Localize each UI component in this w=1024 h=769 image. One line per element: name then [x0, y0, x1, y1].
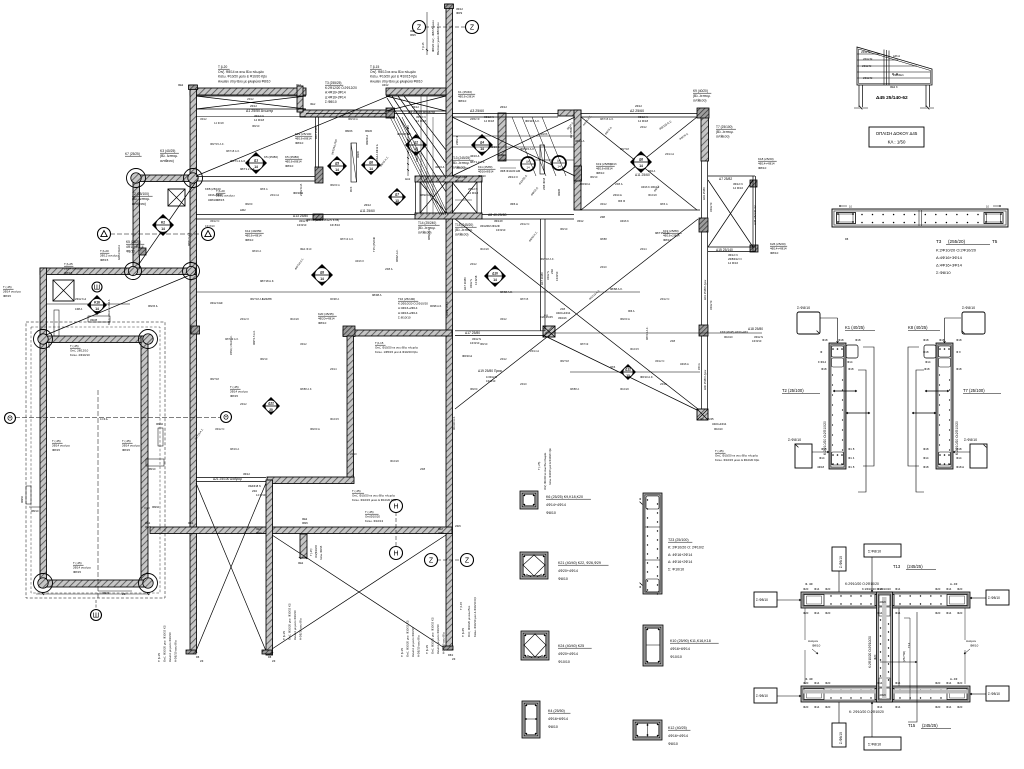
- svg-text:Σ:Φ8/10: Σ:Φ8/10: [988, 596, 1000, 600]
- svg-text:Φ8/10: Φ8/10: [758, 166, 767, 170]
- svg-text:Οπζ. Φ10/20 μεσ. Φ10/15 Κβ: Οπζ. Φ10/20 μεσ. Φ10/15 Κβ: [406, 620, 410, 657]
- svg-text:Θ: Θ: [223, 414, 229, 421]
- svg-text:Κ11 (25/80): Κ11 (25/80): [478, 165, 492, 169]
- svg-text:2Φ14 Δ: 2Φ14 Δ: [270, 193, 279, 197]
- svg-text:Φ8/2Φ Δ: Φ8/2Φ Δ: [365, 135, 369, 145]
- svg-text:(Βλ. λεπτομ.: (Βλ. λεπτομ.: [452, 161, 470, 165]
- svg-text:2Φ14 ανω/μω: 2Φ14 ανω/μω: [3, 290, 22, 294]
- svg-text:98/19 Α: 98/19 Α: [230, 447, 239, 451]
- svg-text:Τ15: Τ15: [908, 723, 916, 728]
- svg-text:(255/20): (255/20): [948, 239, 966, 244]
- svg-text:Φ8/10: Φ8/10: [478, 174, 486, 178]
- svg-text:Οπζ. Φ10/20 κε ανω Βλο πλωρλο: Οπζ. Φ10/20 κε ανω Βλο πλωρλο: [352, 494, 396, 498]
- svg-text:2Φ14 Ο: 2Φ14 Ο: [508, 175, 519, 179]
- svg-text:Τ (-25): Τ (-25): [365, 510, 374, 514]
- svg-text:ΦΒ/10: ΦΒ/10: [148, 467, 156, 471]
- svg-text:2Φ4 Α: 2Φ4 Α: [698, 363, 701, 370]
- svg-text:2Φ12 Ν: 2Φ12 Ν: [520, 222, 529, 226]
- svg-text:Φ- 4Φ: Φ- 4Φ: [805, 677, 813, 681]
- svg-text:2Φ14: 2Φ14: [330, 367, 337, 371]
- svg-text:Δ11 25/60: Δ11 25/60: [635, 173, 650, 177]
- svg-text:Φ- 4Φ: Φ- 4Φ: [805, 582, 813, 586]
- svg-text:Δ13 25/80: Δ13 25/80: [293, 214, 308, 218]
- svg-text:Τ β-15: Τ β-15: [282, 631, 286, 640]
- svg-text:2Φ52 Φ: 2Φ52 Φ: [455, 136, 459, 145]
- svg-text:Φ8/10: Φ8/10: [156, 422, 164, 426]
- svg-text:Οπζ. Φ10/20 κε ανω Βλο πλωρλο: Οπζ. Φ10/20 κε ανω Βλο πλωρλο: [715, 454, 759, 458]
- svg-text:2Φ12 ανω/μω: 2Φ12 ανω/μω: [100, 254, 119, 258]
- svg-text:Κ1 (40/25): Κ1 (40/25): [845, 325, 865, 330]
- svg-text:4Φ16: 4Φ16: [610, 162, 617, 166]
- svg-text:Φ14: Φ14: [923, 456, 929, 460]
- svg-text:ΔΦ2: ΔΦ2: [240, 208, 246, 212]
- svg-text:Δ45 25/140-62: Δ45 25/140-62: [753, 205, 757, 225]
- svg-text:Τ (-25): Τ (-25): [3, 285, 12, 289]
- svg-text:Φ14: Φ14: [946, 681, 952, 685]
- svg-text:Τ (-25): Τ (-25): [537, 462, 541, 470]
- svg-text:3Φ12 Ν: 3Φ12 Ν: [215, 427, 224, 431]
- svg-text:Φ8/9: Φ8/9: [145, 525, 151, 529]
- svg-text:Φ1 8: Φ1 8: [848, 447, 855, 451]
- svg-text:14 Φ/18: 14 Φ/18: [484, 119, 494, 123]
- svg-text:Δ2 25/60: Δ2 25/60: [630, 109, 644, 113]
- svg-text:Φ8/20: Φ8/20: [470, 387, 478, 391]
- svg-text:Φ8/15: Φ8/15: [3, 294, 11, 298]
- svg-text:Κ5 (25/25): Κ5 (25/25): [126, 240, 141, 244]
- svg-text:Δ1 25/50 Ανωστρ: Δ1 25/50 Ανωστρ: [246, 109, 273, 113]
- svg-text:Τ16 (25/190): Τ16 (25/190): [398, 297, 415, 301]
- svg-text:Δ19 25/80 Πρεκι: Δ19 25/80 Πρεκι: [478, 369, 502, 373]
- svg-text:ΦΕ4 Φ10: ΦΕ4 Φ10: [300, 247, 312, 251]
- svg-text:Φ8/10: Φ8/10: [126, 250, 135, 254]
- svg-text:Φ8/10: Φ8/10: [558, 577, 568, 581]
- svg-text:Δ21 25/100 Διαδρομ: Δ21 25/100 Διαδρομ: [213, 477, 242, 481]
- svg-text:Κ:2Φ10/20 Ο:2Φ10/20: Κ:2Φ10/20 Ο:2Φ10/20: [936, 248, 977, 253]
- svg-text:Φ8/10: Φ8/10: [152, 505, 160, 509]
- svg-text:Κατω. Φ10/20 μεσ & Φ10/15 Κβο: Κατω. Φ10/20 μεσ & Φ10/15 Κβο: [370, 75, 417, 79]
- svg-text:Φ18: Φ18: [855, 338, 861, 342]
- svg-text:Κατω. Φ10/13: Κατω. Φ10/13: [365, 519, 383, 523]
- svg-text:ΦΕ2: ΦΕ2: [145, 521, 151, 525]
- svg-text:3Φ/28: 3Φ/28: [90, 318, 98, 322]
- svg-text:Σ:Φ8/10: Σ:Φ8/10: [756, 598, 768, 602]
- svg-text:3Φ12 Ν: 3Φ12 Ν: [299, 219, 308, 223]
- svg-text:Δ:4Φ16+3Φ14: Δ:4Φ16+3Φ14: [936, 263, 963, 268]
- svg-text:1Φ 8/10: 1Φ 8/10: [297, 223, 307, 227]
- svg-text:4Φ20+4Φ14: 4Φ20+4Φ14: [558, 569, 578, 573]
- svg-text:4Φ12: 4Φ12: [382, 83, 389, 87]
- svg-text:Φ8/9: Φ8/9: [302, 521, 308, 525]
- svg-text:Φ14: Φ14: [814, 681, 820, 685]
- svg-text:Φ10/20: Φ10/20: [648, 193, 657, 197]
- svg-text:Τ23 (25/100): Τ23 (25/100): [668, 538, 689, 542]
- svg-text:Φ8/10: Φ8/10: [295, 141, 304, 145]
- svg-text:3Φ12 Ν: 3Φ12 Ν: [754, 335, 763, 339]
- svg-text:Κ1 (25/40): Κ1 (25/40): [458, 90, 472, 94]
- svg-text:3Φ12: 3Φ12: [300, 342, 307, 346]
- svg-text:Φ20: Φ20: [803, 705, 809, 709]
- svg-text:14 Φ/18: 14 Φ/18: [214, 121, 224, 125]
- svg-text:98/88 Α.Σ.: 98/88 Α.Σ.: [300, 387, 313, 391]
- svg-text:Δ8 40-25/80: Δ8 40-25/80: [488, 213, 507, 217]
- svg-text:Φ14: Φ14: [814, 705, 820, 709]
- svg-text:2Φ14 ανω/μω: 2Φ14 ανω/μω: [122, 444, 141, 448]
- svg-text:Κατω. 1Φ5/15 μεσ & Φ10/20 Κβο: Κατω. 1Φ5/15 μεσ & Φ10/20 Κβο: [375, 350, 418, 354]
- svg-text:2Φ14 ανω/μω: 2Φ14 ανω/μω: [230, 390, 249, 394]
- svg-text:Φ8/10: Φ8/10: [318, 321, 327, 325]
- svg-text:Δ:4Φ16+2Φ14: Δ:4Φ16+2Φ14: [398, 311, 418, 315]
- svg-text:3Φ12ΦΜ 2Φ12Φ: 3Φ12ΦΜ 2Φ12Φ: [480, 224, 500, 228]
- svg-text:Σ:Φ8/10: Σ:Φ8/10: [936, 270, 951, 275]
- svg-text:αντίθεσο): αντίθεσο): [716, 135, 729, 139]
- svg-text:2Φ52 Φ: 2Φ52 Φ: [470, 117, 480, 121]
- svg-text:Οπζ. Φ8/13 κε ανω Βλο πλωρλο: Οπζ. Φ8/13 κε ανω Βλο πλωρλο: [370, 70, 416, 74]
- svg-text:98/16 Α: 98/16 Α: [252, 249, 261, 253]
- svg-text:Οπζ. Φ8/14 κε ανω Βλο πλωρλο: Οπζ. Φ8/14 κε ανω Βλο πλωρλο: [218, 70, 264, 74]
- svg-text:2Φ14 ανω/μω: 2Φ14 ανω/μω: [64, 267, 83, 271]
- svg-text:2Φ12: 2Φ12: [635, 104, 642, 108]
- svg-text:Φ14: Φ14: [946, 587, 952, 591]
- svg-text:Φ14: Φ14: [895, 705, 901, 709]
- svg-text:4Φ16+8Φ14: 4Φ16+8Φ14: [295, 137, 312, 141]
- svg-text:Δ- 4Φ: Δ- 4Φ: [950, 677, 958, 681]
- svg-text:Φ10/20: Φ10/20: [620, 387, 629, 391]
- svg-text:4Φ16 Κ: 4Φ16 Κ: [620, 219, 629, 223]
- svg-text:Φ8/20 Α: Φ8/20 Α: [580, 182, 590, 186]
- svg-text:Φ20: Φ20: [957, 611, 963, 615]
- svg-text:Φ14: Φ14: [847, 360, 853, 364]
- svg-text:H: H: [393, 550, 398, 557]
- svg-text:14: 14: [639, 164, 643, 168]
- svg-text:Σ:Φ8/10: Σ:Φ8/10: [797, 306, 810, 310]
- svg-text:Φ8/10: Φ8/10: [20, 495, 24, 503]
- svg-text:4Φ20+4Φ14: 4Φ20+4Φ14: [556, 311, 571, 315]
- svg-text:Φ20: Φ20: [803, 681, 809, 685]
- svg-text:ΟπζΦ10/15: ΟπζΦ10/15: [315, 544, 318, 558]
- svg-text:Κ:2Φ10/20 Ο:2Φ10/20: Κ:2Φ10/20 Ο:2Φ10/20: [845, 582, 879, 586]
- svg-text:98/715: 98/715: [520, 297, 529, 301]
- svg-text:1Φ8 Α: 1Φ8 Α: [75, 307, 83, 311]
- svg-text:2Φ14 Δ: 2Φ14 Δ: [530, 349, 539, 353]
- svg-text:3Φ4/16: 3Φ4/16: [558, 316, 567, 320]
- svg-text:Φ20: Φ20: [803, 587, 809, 591]
- svg-text:Κ:2Φ10/20 Ο:2Φ10/20: Κ:2Φ10/20 Ο:2Φ10/20: [868, 636, 872, 668]
- svg-text:Φ8/15: Φ8/15: [122, 448, 130, 452]
- svg-text:Φ8/20 Α: Φ8/20 Α: [330, 183, 340, 187]
- svg-text:98/715 Α.Σ.: 98/715 Α.Σ.: [600, 117, 614, 121]
- svg-text:Τ β-15: Τ β-15: [459, 601, 463, 610]
- svg-text:14: 14: [95, 307, 99, 311]
- svg-text:2Φ14: 2Φ14: [640, 247, 647, 251]
- svg-text:Φ8/15: Φ8/15: [216, 198, 225, 202]
- svg-text:Φ10/20: Φ10/20: [290, 317, 299, 321]
- svg-text:Δ4: Δ4: [480, 140, 484, 144]
- svg-text:Δ22: Δ22: [268, 401, 274, 405]
- svg-text:Δ4 25/50 Ανωστρ: Δ4 25/50 Ανωστρ: [408, 110, 435, 114]
- svg-text:2Φ8: 2Φ8: [420, 467, 426, 471]
- svg-text:98/88 Α.Σ.: 98/88 Α.Σ.: [610, 287, 623, 291]
- svg-text:3Φ12: 3Φ12: [500, 317, 507, 321]
- svg-text:Κ5 (25/80): Κ5 (25/80): [264, 155, 278, 159]
- svg-text:ΦΙ6 Φ: ΦΙ6 Φ: [618, 199, 625, 203]
- svg-text:Σ:Φ8/10: Σ:Φ8/10: [868, 550, 881, 554]
- svg-text:Δ:4Φ16+2Φ14: Δ:4Φ16+2Φ14: [325, 95, 346, 99]
- svg-text:Τ13 (245/25): Τ13 (245/25): [452, 156, 470, 160]
- svg-text:Κ12 (40/25): Κ12 (40/25): [668, 726, 687, 730]
- svg-text:Τ (-25): Τ (-25): [73, 561, 82, 565]
- svg-text:Α ΦΕ/10 ανω Βλο: Α ΦΕ/10 ανω Βλο: [299, 618, 303, 640]
- svg-text:ΦΕ2: ΦΕ2: [296, 83, 302, 87]
- svg-text:Οπζ. Φ10/20 με ανω Βλο: Οπζ. Φ10/20 με ανω Βλο: [467, 605, 471, 637]
- svg-text:Φ8/20 Δ: Φ8/20 Δ: [310, 427, 320, 431]
- svg-text:Φ8/20: Φ8/20: [365, 129, 373, 133]
- svg-text:Δ11 25/60: Δ11 25/60: [360, 209, 375, 213]
- svg-text:ΦΕ2: ΦΕ2: [298, 561, 304, 565]
- svg-text:2Φ12: 2Φ12: [247, 97, 254, 101]
- svg-text:4Φ16+8Φ14: 4Φ16+8Φ14: [208, 193, 223, 197]
- svg-text:Αναμον: Αναμον: [966, 639, 977, 643]
- svg-text:98/719: 98/719: [580, 342, 589, 346]
- svg-text:2Φ: 2Φ: [272, 660, 275, 663]
- svg-text:Βλεπουν χωλο Φ8/10 αν.: Βλεπουν χωλο Φ8/10 αν.: [436, 21, 440, 55]
- svg-text:H: H: [393, 503, 398, 510]
- svg-text:20: 20: [269, 408, 273, 412]
- svg-text:98/6 Α: 98/6 Α: [260, 187, 268, 191]
- svg-text:3Φ12: 3Φ12: [243, 472, 250, 476]
- svg-text:Φ8/10: Φ8/10: [970, 644, 979, 648]
- svg-text:Φ18: Φ18: [956, 338, 962, 342]
- svg-text:14: 14: [369, 167, 373, 171]
- svg-text:Φ8/10: Φ8/10: [812, 644, 821, 648]
- svg-text:98/6 Α: 98/6 Α: [660, 202, 668, 206]
- svg-text:Δ1: Δ1: [254, 158, 258, 162]
- svg-text:2Φ/9: 2Φ/9: [455, 524, 461, 528]
- svg-text:3Φ12 Ν: 3Φ12 Ν: [472, 337, 481, 341]
- svg-text:Φ20: Φ20: [825, 611, 831, 615]
- svg-text:Τ (-25): Τ (-25): [70, 344, 79, 348]
- svg-text:14 Φ/10: 14 Φ/10: [256, 493, 266, 497]
- svg-text:Φ8/15: Φ8/15: [100, 258, 109, 262]
- svg-text:(Βλ. λεπτομ.: (Βλ. λεπτομ.: [716, 130, 734, 134]
- svg-text:Φ20: Φ20: [957, 705, 963, 709]
- svg-text:ΦΕ2: ΦΕ2: [410, 29, 416, 33]
- svg-text:Δ15 25/140: Δ15 25/140: [716, 248, 733, 252]
- svg-text:Οπζ. Φ10/20 μεσ. Φ10/15 Κβ: Οπζ. Φ10/20 μεσ. Φ10/15 Κβ: [163, 625, 167, 662]
- svg-text:Φ8/20: Φ8/20: [102, 591, 110, 595]
- svg-text:Δ3 25/60: Δ3 25/60: [470, 109, 484, 113]
- svg-text:3Φ14Χ: 3Φ14Χ: [494, 219, 503, 223]
- svg-text:Φ8/15: Φ8/15: [52, 448, 60, 452]
- svg-text:Δ7: Δ7: [395, 192, 399, 196]
- svg-text:2Φ12: 2Φ12: [412, 105, 419, 109]
- svg-text:Κ:2Φ12/20 Ο:2Φ12/20: Κ:2Φ12/20 Ο:2Φ12/20: [325, 86, 357, 90]
- svg-text:98/718 Α.Σ.: 98/718 Α.Σ.: [260, 279, 275, 283]
- svg-text:Φ8/115 Α.Σ.: Φ8/115 Α.Σ.: [525, 119, 540, 123]
- svg-text:Κ24 (40/40) Κ25: Κ24 (40/40) Κ25: [558, 644, 584, 648]
- svg-text:Δ: 4Φ16+2Φ14: Δ: 4Φ16+2Φ14: [668, 560, 692, 564]
- svg-text:98/6: 98/6: [610, 365, 616, 369]
- svg-text:3ΦΔΦ18 Ν: 3ΦΔΦ18 Ν: [248, 484, 261, 488]
- svg-text:Τ15 (25/240: Τ15 (25/240: [372, 236, 376, 252]
- svg-text:2Φ10: 2Φ10: [350, 452, 357, 456]
- svg-text:2Φ12 Μ: 2Φ12 Μ: [861, 50, 870, 54]
- svg-text:(Βλ. λεπτομ.: (Βλ. λεπτομ.: [418, 226, 436, 230]
- svg-text:3Φ12 Μ: 3Φ12 Μ: [709, 203, 713, 212]
- svg-text:Σ:Φ8/10: Σ:Φ8/10: [868, 743, 881, 747]
- svg-text:Τ13: Τ13: [893, 564, 901, 569]
- svg-text:Οπζ. Φ10/20 κε ανω Βλο πλωρλο: Οπζ. Φ10/20 κε ανω Βλο πλωρλο: [375, 346, 419, 350]
- svg-text:2Φ12: 2Φ12: [640, 125, 647, 129]
- svg-text:Τ (-25): Τ (-25): [352, 489, 361, 493]
- svg-text:2Φ4 Α: 2Φ4 Α: [648, 169, 656, 173]
- svg-text:3Φ12 Ν: 3Φ12 Ν: [655, 359, 664, 363]
- svg-text:Οπζ. Φ10/20 κε ανω Βλο πλωρλο: Οπζ. Φ10/20 κε ανω Βλο πλωρλο: [544, 452, 547, 490]
- svg-text:Φ8/10: Φ8/10: [260, 357, 268, 361]
- svg-text:98/93 Κ.Σ.: 98/93 Κ.Σ.: [427, 228, 431, 240]
- svg-text:2Φ8 Δ: 2Φ8 Δ: [385, 267, 393, 271]
- svg-text:ΦΒ/10: ΦΒ/10: [31, 509, 39, 513]
- svg-text:Φ8/718 Α.Σ.: Φ8/718 Α.Σ.: [250, 297, 265, 301]
- svg-text:Σ:Φ8/10: Σ:Φ8/10: [964, 438, 977, 442]
- svg-text:Τ3: Τ3: [936, 239, 942, 244]
- svg-text:Τ β-20: Τ β-20: [218, 65, 227, 69]
- svg-text:Κατω. 2Φ10/10: Κατω. 2Φ10/10: [70, 353, 90, 357]
- svg-text:Κ21 (40/40) Κ22, Φ26,Φ29: Κ21 (40/40) Κ22, Φ26,Φ29: [558, 561, 601, 565]
- svg-text:ΔΙΑ2: ΔΙΑ2: [405, 178, 411, 181]
- svg-text:Φ1 8: Φ1 8: [848, 465, 855, 469]
- svg-text:Οπζ. Φ10/20 μεσ. Φ10/15 Κβ: Οπζ. Φ10/20 μεσ. Φ10/15 Κβ: [431, 617, 435, 654]
- svg-text:4Φ16+2Φ14: 4Φ16+2Φ14: [458, 95, 475, 99]
- svg-text:Σ: Φ10/10: Σ: Φ10/10: [668, 568, 684, 572]
- svg-text:Φ8/718: Φ8/718: [620, 147, 629, 151]
- svg-text:14: 14: [335, 168, 339, 172]
- svg-text:Δ17 30/80: Δ17 30/80: [463, 277, 467, 290]
- svg-text:Κατω. Φ10/15 μεσο & Φ10/20 Κβο: Κατω. Φ10/15 μεσο & Φ10/20 Κβο: [352, 498, 397, 502]
- svg-text:Τ3 (255/25): Τ3 (255/25): [325, 81, 341, 85]
- svg-text:1Φ 8/10: 1Φ 8/10: [752, 339, 762, 343]
- svg-text:ΦΕ2: ΦΕ2: [310, 102, 316, 106]
- svg-text:2Φ12 Ν: 2Φ12 Ν: [660, 297, 669, 301]
- svg-text:ΦΙΣΔ Α 3Φ12 Δ: ΦΙΣΔ Α 3Φ12 Δ: [375, 144, 379, 162]
- svg-text:Φ10/20 Α.Σ.: Φ10/20 Α.Σ.: [452, 416, 456, 430]
- svg-text:ΟπζΦ10/20: ΟπζΦ10/20: [365, 515, 380, 519]
- svg-text:4Φ20+4Φ14: 4Φ20+4Φ14: [558, 652, 578, 656]
- svg-text:Κ6 (25/25) Κ9,Κ18,Κ20: Κ6 (25/25) Κ9,Κ18,Κ20: [546, 495, 583, 499]
- svg-text:Φ8/Φ7.8 Α.Σ.: Φ8/Φ7.8 Α.Σ.: [445, 300, 449, 316]
- svg-text:Φ8/10: Φ8/10: [663, 238, 672, 242]
- svg-text:98/ΦΛ Α.Σ.: 98/ΦΛ Α.Σ.: [395, 249, 399, 262]
- svg-text:Φ18: Φ18: [821, 447, 827, 451]
- svg-text:Κ12 (40/250: Κ12 (40/250: [245, 229, 262, 233]
- svg-text:Τ (-25): Τ (-25): [715, 449, 724, 453]
- svg-text:4Φ16 Α: 4Φ16 Α: [575, 139, 585, 143]
- svg-text:Φ8/718: Φ8/718: [210, 377, 219, 381]
- svg-text:Δ12: Δ12: [625, 367, 631, 371]
- svg-text:Ανωτελ με μεσο Φ10/10: Ανωτελ με μεσο Φ10/10: [293, 610, 297, 640]
- svg-text:3Φ6 Δ: 3Φ6 Δ: [510, 202, 518, 206]
- svg-text:4Φ16+8Φ14: 4Φ16+8Φ14: [478, 169, 494, 173]
- svg-text:3Φ12: 3Φ12: [577, 219, 584, 223]
- svg-text:2Φ52 Κ.Μ.: 2Φ52 Κ.Μ.: [299, 183, 303, 196]
- svg-text:Δ46 Δ: Δ46 Δ: [893, 54, 900, 58]
- svg-text:Τ5: Τ5: [992, 239, 998, 244]
- svg-text:Φ10/10: Φ10/10: [670, 655, 682, 659]
- svg-text:Φ18: Φ18: [923, 447, 929, 451]
- svg-text:Φ8/9: Φ8/9: [410, 33, 416, 37]
- svg-text:ΦΕ2: ΦΕ2: [178, 83, 184, 87]
- svg-text:ΔΦ2 Δ ΦΕΩ Δ: ΔΦ2 Δ ΦΕΩ Δ: [118, 245, 121, 260]
- svg-text:Φ8/10: Φ8/10: [245, 238, 254, 242]
- svg-text:14: 14: [557, 165, 561, 169]
- svg-text:Κ18 (25/20): Κ18 (25/20): [758, 157, 774, 161]
- svg-text:Φ8/10: Φ8/10: [546, 511, 556, 515]
- svg-text:Ш: Ш: [93, 612, 99, 619]
- svg-text:ΦΙ6 Α: ΦΙ6 Α: [628, 309, 635, 313]
- svg-text:Φ6/15 Δ: Φ6/15 Δ: [148, 304, 158, 308]
- svg-text:Δ17 30/80: Δ17 30/80: [540, 272, 544, 285]
- svg-text:Φ14: Φ14: [946, 705, 952, 709]
- svg-text:Δ17 25/80: Δ17 25/80: [465, 331, 480, 335]
- svg-text:Φ8/10: Φ8/10: [548, 725, 558, 729]
- svg-text:2Φ12: 2Φ12: [660, 382, 667, 386]
- svg-text:Φ14: Φ14: [925, 360, 931, 364]
- svg-text:Α:4Φ16+3Φ14: Α:4Φ16+3Φ14: [325, 91, 346, 95]
- svg-text:ΦΒ4 Κ (Δ45 Τ16 Ενν ΚΤΒ): ΦΒ4 Κ (Δ45 Τ16 Ενν ΚΤΒ): [306, 218, 339, 222]
- svg-text:ΦΒ/26: ΦΒ/26: [345, 129, 353, 133]
- svg-text:14: 14: [526, 166, 530, 170]
- svg-text:Κ20 (45/45): Κ20 (45/45): [318, 312, 334, 316]
- svg-text:Φ8/9: Φ8/9: [456, 11, 463, 15]
- svg-text:14: 14: [480, 147, 484, 151]
- svg-text:Φ10/10: Φ10/10: [714, 427, 723, 431]
- svg-text:Τ β-15: Τ β-15: [157, 653, 161, 662]
- svg-text:(Βλ. λεπτομ.: (Βλ. λεπτομ.: [455, 228, 473, 232]
- svg-text:98/Τ1.5 Α.Σ.: 98/Τ1.5 Α.Σ.: [187, 232, 191, 246]
- svg-text:Κ:2Φ10/20 Ο:2Φ10/20: Κ:2Φ10/20 Ο:2Φ10/20: [862, 587, 891, 591]
- svg-text:98/98 Α: 98/98 Α: [372, 293, 382, 297]
- svg-text:Φ8/10 Α.Σ.: Φ8/10 Α.Σ.: [640, 375, 654, 379]
- svg-text:Φ20: Φ20: [935, 587, 941, 591]
- svg-text:ΟΠΛΙΣΗ ΔΟΚΟΥ Δ45: ΟΠΛΙΣΗ ΔΟΚΟΥ Δ45: [876, 131, 918, 136]
- svg-text:Κ19 (25/100: Κ19 (25/100: [295, 132, 312, 136]
- svg-text:Σ:Φ8/10: Σ:Φ8/10: [962, 306, 975, 310]
- svg-text:1Φ 8/10: 1Φ 8/10: [496, 228, 506, 232]
- svg-text:Σ:Φ8/10: Σ:Φ8/10: [788, 438, 801, 442]
- svg-text:3Φ12: 3Φ12: [200, 117, 207, 121]
- svg-text:Φ8/10: Φ8/10: [560, 227, 568, 231]
- svg-text:Ш: Ш: [94, 284, 100, 291]
- svg-text:Δ7 25/82: Δ7 25/82: [719, 177, 732, 181]
- svg-text:Δ- 4Φ: Δ- 4Φ: [950, 582, 958, 586]
- svg-text:2Φ: 2Φ: [122, 592, 126, 596]
- svg-text:αντίθεσο): αντίθεσο): [160, 159, 174, 163]
- svg-text:φ.φ: φ.φ: [544, 314, 548, 317]
- svg-text:4Φ16+4Φ14: 4Φ16+4Φ14: [668, 734, 688, 738]
- svg-text:Τ β-20: Τ β-20: [100, 249, 109, 253]
- svg-text:14: 14: [161, 227, 165, 231]
- svg-text:Φ1 4: Φ1 4: [848, 456, 855, 460]
- svg-text:Φ8/10: Φ8/10: [770, 251, 779, 255]
- svg-text:14 Φ/18: 14 Φ/18: [638, 119, 648, 123]
- svg-text:Φ18: Φ18: [923, 338, 929, 342]
- svg-text:3Φ12 Μ: 3Φ12 Μ: [709, 301, 713, 310]
- svg-text:Σ:Φ8/10: Σ:Φ8/10: [839, 732, 843, 744]
- svg-text:Κ4 (25/50): Κ4 (25/50): [548, 709, 565, 713]
- svg-text:(245/25): (245/25): [922, 723, 938, 728]
- svg-text:Α ΦΕ/10 ανω Βλο: Α ΦΕ/10 ανω Βλο: [442, 632, 446, 654]
- svg-text:Φ8/715 Α.Σ.: Φ8/715 Α.Σ.: [210, 142, 225, 146]
- svg-text:Φ8/718: Φ8/718: [560, 359, 569, 363]
